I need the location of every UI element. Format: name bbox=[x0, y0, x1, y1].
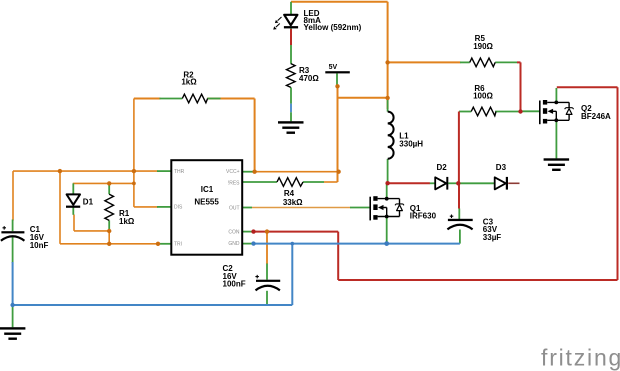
svg-text:470Ω: 470Ω bbox=[299, 74, 319, 83]
svg-text:1kΩ: 1kΩ bbox=[181, 78, 197, 87]
svg-text:D3: D3 bbox=[496, 163, 507, 172]
svg-text:R4: R4 bbox=[284, 189, 295, 198]
svg-text:VCC+: VCC+ bbox=[226, 169, 240, 175]
svg-text:NE555: NE555 bbox=[194, 198, 219, 207]
svg-text:330µH: 330µH bbox=[399, 139, 423, 148]
svg-text:GND: GND bbox=[228, 241, 240, 247]
svg-text:!RES: !RES bbox=[228, 181, 240, 187]
svg-text:TRI: TRI bbox=[174, 241, 182, 247]
svg-text:Yellow (592nm): Yellow (592nm) bbox=[304, 23, 362, 32]
svg-text:DIS: DIS bbox=[174, 205, 183, 211]
svg-text:10nF: 10nF bbox=[30, 241, 49, 250]
svg-text:THR: THR bbox=[174, 169, 185, 175]
svg-text:33µF: 33µF bbox=[483, 233, 502, 242]
svg-text:5V: 5V bbox=[329, 64, 338, 71]
svg-text:fritzing: fritzing bbox=[541, 345, 620, 371]
svg-text:BF246A: BF246A bbox=[581, 112, 611, 121]
svg-text:100nF: 100nF bbox=[223, 280, 246, 289]
svg-text:IRF630: IRF630 bbox=[410, 212, 437, 221]
svg-text:190Ω: 190Ω bbox=[473, 42, 493, 51]
svg-text:100Ω: 100Ω bbox=[473, 92, 493, 101]
svg-text:OUT: OUT bbox=[229, 205, 240, 211]
svg-text:D1: D1 bbox=[83, 197, 94, 206]
svg-text:33kΩ: 33kΩ bbox=[283, 198, 303, 207]
svg-text:D2: D2 bbox=[437, 163, 448, 172]
svg-text:1kΩ: 1kΩ bbox=[119, 217, 135, 226]
svg-text:CON: CON bbox=[228, 229, 240, 235]
svg-text:IC1: IC1 bbox=[201, 185, 214, 194]
